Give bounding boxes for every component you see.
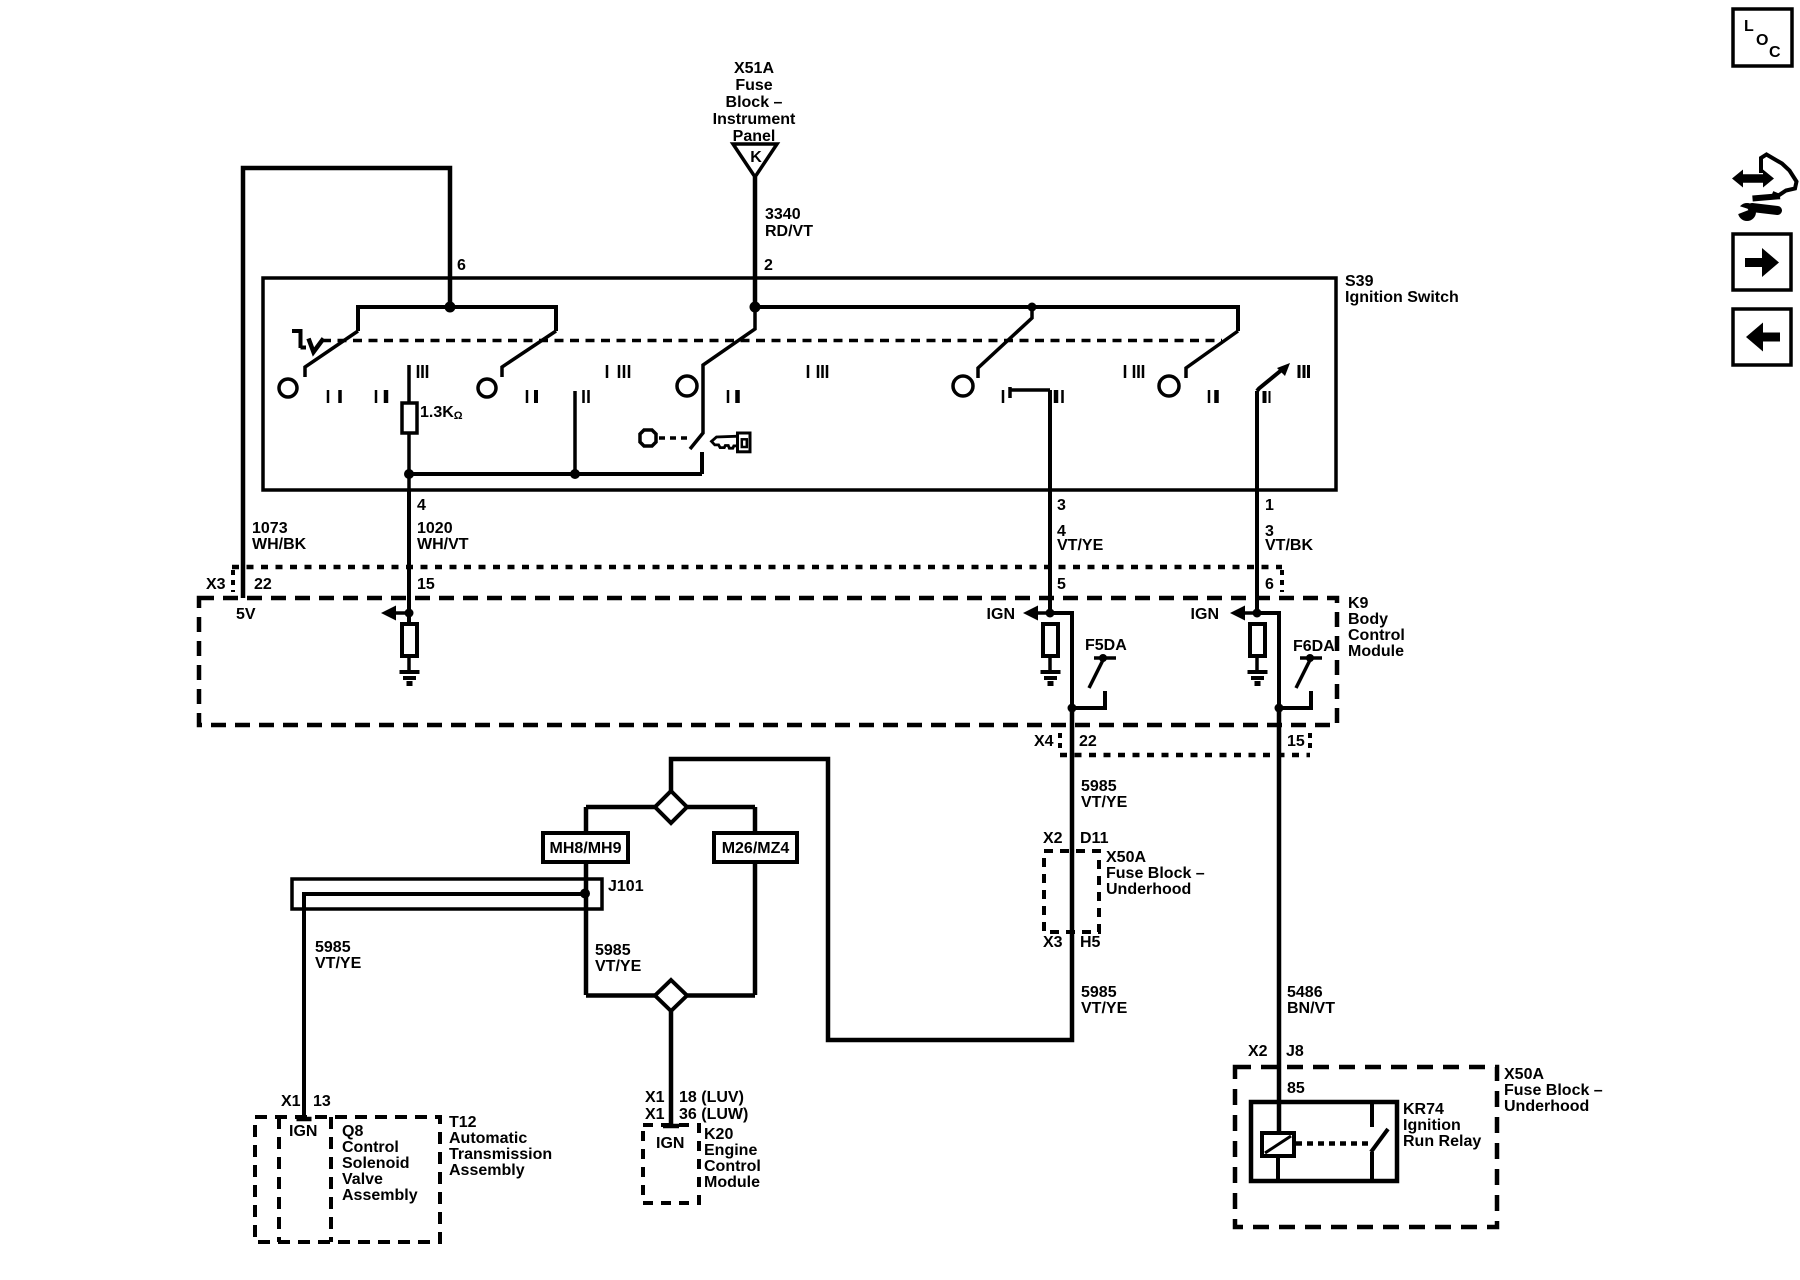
MH8 branch wire	[584, 807, 589, 995]
label K20 Engine Control Module	[704, 1126, 761, 1191]
fuse block pass-through D11 dashed box	[1044, 851, 1099, 932]
ticks group L7	[1265, 391, 1270, 403]
svg-text:IGN: IGN	[987, 606, 1015, 623]
svg-text:VT/YE: VT/YE	[315, 955, 362, 972]
label 4 VT/YE	[1057, 523, 1104, 554]
svg-text:1073: 1073	[252, 520, 288, 537]
svg-text:22: 22	[254, 576, 272, 593]
label X50A Fuse Block - Underhood (pass-through)	[1106, 849, 1205, 898]
wire 6 drop to bracket inside switch	[448, 278, 453, 307]
F6DA pivot bar	[1300, 656, 1322, 660]
svg-text:VT/YE: VT/YE	[1081, 1000, 1128, 1017]
svg-text:WH/BK: WH/BK	[252, 536, 307, 553]
svg-text:Fuse Block –: Fuse Block –	[1504, 1082, 1603, 1099]
splice bottom diamond	[655, 980, 687, 1011]
svg-text:IGN: IGN	[656, 1135, 684, 1152]
M26 branch wire	[753, 807, 758, 995]
label KR74 Ignition Run Relay	[1403, 1101, 1481, 1150]
svg-text:Block –: Block –	[726, 94, 783, 111]
junction dot resistor/bus	[404, 469, 414, 479]
engine control module K20 dashed box	[643, 1125, 699, 1203]
wire 5486 BN/VT from X4-15 to relay	[1277, 708, 1282, 1133]
underhood fuse block X50A dashed box	[1235, 1067, 1497, 1227]
splice top diamond	[655, 791, 687, 823]
svg-text:Module: Module	[704, 1174, 760, 1191]
svg-text:85: 85	[1287, 1080, 1305, 1097]
svg-text:1020: 1020	[417, 520, 453, 537]
svg-text:Q8: Q8	[342, 1123, 363, 1140]
position ticks group L1	[328, 390, 340, 403]
svg-text:KR74: KR74	[1403, 1101, 1444, 1118]
svg-text:IGN: IGN	[1191, 606, 1219, 623]
svg-text:18 (LUV): 18 (LUV)	[679, 1089, 744, 1106]
connector X3 line	[232, 565, 1282, 570]
ground lead	[1255, 656, 1259, 672]
svg-text:15: 15	[1287, 733, 1305, 750]
resistor bottom lead to internal bus	[407, 433, 411, 490]
T12 inner partition left	[277, 1117, 281, 1242]
switch blade 2	[502, 331, 556, 377]
IGN arrow on wire 5	[1023, 606, 1050, 621]
wire 1073 WH/BK pin 6 feed (top-left corner run)	[243, 168, 450, 598]
svg-text:L: L	[1744, 18, 1754, 35]
wire 5985 branch inside J101	[304, 894, 585, 1119]
switch blade 1	[305, 331, 358, 377]
connector X4 right bracket	[1308, 733, 1312, 753]
svg-text:5985: 5985	[595, 942, 631, 959]
connector X4 left bracket	[1058, 733, 1062, 753]
wire 2 junction dot on bracket 2	[750, 302, 761, 313]
svg-text:Run Relay: Run Relay	[1403, 1133, 1481, 1150]
svg-text:5985: 5985	[1081, 984, 1117, 1001]
svg-text:Underhood: Underhood	[1504, 1098, 1589, 1115]
branch to F5DA switch	[1050, 613, 1072, 708]
svg-text:Assembly: Assembly	[342, 1187, 418, 1204]
svg-text:Fuse: Fuse	[735, 77, 772, 94]
svg-text:5V: 5V	[236, 606, 256, 623]
switch common bracket 2	[755, 307, 1238, 331]
wire 5985 VT/YE from X4-22 to splice pack	[671, 708, 1072, 1040]
terminal bar at K20	[663, 1124, 679, 1129]
svg-text:Transmission: Transmission	[449, 1146, 552, 1163]
transmission code box MH8/MH9	[543, 833, 628, 862]
key switch contact circle 3	[677, 376, 697, 396]
wire 5985 to ECM	[669, 1011, 674, 1126]
splice bottom rail	[586, 993, 755, 998]
icon forward arrow box	[1733, 234, 1791, 290]
svg-text:BN/VT: BN/VT	[1287, 1000, 1335, 1017]
wire 3 VT/BK pin 1	[1255, 391, 1259, 613]
position ticks group L2	[376, 390, 386, 403]
pull resistor on 1020 input	[402, 624, 417, 656]
icon vehicle service (double arrow, car outline, wrench)	[1732, 155, 1797, 222]
F6DA fixed contact L	[1279, 691, 1311, 708]
relay switch lower contact	[1370, 1152, 1374, 1181]
ticks group L6	[1209, 390, 1217, 403]
junction dot J101	[580, 889, 590, 899]
splice J101 box	[292, 879, 602, 909]
accessory blade with arrowhead	[1257, 368, 1284, 391]
svg-text:J8: J8	[1286, 1043, 1304, 1060]
label X3 / H5	[1043, 934, 1101, 951]
ticks group L2b	[527, 390, 536, 403]
F6DA blade	[1296, 660, 1310, 688]
label X2 / J8	[1248, 1043, 1304, 1060]
ticks group U3	[808, 365, 827, 378]
contact circle 5	[1159, 376, 1179, 396]
label 5985 VT/YE (lower)	[1081, 984, 1128, 1017]
icon back arrow box	[1733, 309, 1791, 365]
relay KR74 box	[1251, 1102, 1397, 1181]
label T12 Automatic Transmission Assembly	[449, 1114, 552, 1179]
contact circle 1	[279, 379, 297, 397]
label Q8 Control Solenoid Valve Assembly	[342, 1123, 418, 1204]
relay actuation dashed link	[1296, 1141, 1368, 1146]
connector X3 right bracket	[1280, 570, 1284, 592]
F5DA pivot bar	[1094, 656, 1116, 660]
svg-text:X2: X2	[1248, 1043, 1268, 1060]
wire 1020 WH/VT pin 4	[407, 490, 411, 624]
label X1 / 13	[281, 1093, 331, 1110]
5V sense arrow	[381, 606, 409, 621]
F5DA blade	[1089, 660, 1103, 688]
svg-text:VT/BK: VT/BK	[1265, 537, 1313, 554]
wire 4 VT/YE pin 3	[1048, 390, 1052, 613]
svg-text:RD/VT: RD/VT	[765, 223, 813, 240]
svg-text:Underhood: Underhood	[1106, 881, 1191, 898]
internal bus wire	[409, 472, 702, 476]
label 3 VT/BK	[1265, 523, 1313, 554]
automatic transmission assembly T12 dashed box	[255, 1117, 440, 1242]
label 3340 RD/VT	[765, 206, 813, 240]
F6DA pivot dot	[1306, 654, 1314, 662]
F5DA fixed contact L	[1072, 691, 1105, 708]
contact stub mid bus	[573, 391, 577, 474]
junction node on bracket 1	[445, 302, 456, 313]
connector X3 left bracket	[231, 570, 235, 592]
svg-text:2: 2	[764, 257, 773, 274]
relay coil lower lead	[1276, 1156, 1280, 1181]
ticks group U5	[1299, 365, 1309, 378]
key icon	[712, 433, 751, 452]
relay switch upper contact	[1370, 1102, 1374, 1127]
label S39 Ignition Switch	[1345, 273, 1459, 306]
terminal bar at Q8	[297, 1117, 312, 1122]
relay switch blade	[1371, 1129, 1388, 1152]
svg-text:X3: X3	[206, 576, 226, 593]
label 5985 VT/YE (left branch)	[315, 939, 362, 972]
svg-text:Control: Control	[1348, 627, 1405, 644]
label 1073 WH/BK	[252, 520, 307, 553]
ground symbol	[1248, 672, 1268, 684]
svg-text:K9: K9	[1348, 595, 1369, 612]
ticks group U2	[607, 365, 629, 378]
branch to F6DA switch	[1257, 613, 1279, 708]
svg-text:F5DA: F5DA	[1085, 637, 1127, 654]
svg-text:X4: X4	[1034, 733, 1054, 750]
svg-text:O: O	[1756, 32, 1768, 49]
svg-text:VT/YE: VT/YE	[1081, 794, 1128, 811]
connector X51A Fuse Block - Instrument Panel label	[713, 60, 796, 145]
svg-text:Engine: Engine	[704, 1142, 757, 1159]
svg-text:15: 15	[417, 576, 435, 593]
svg-text:5486: 5486	[1287, 984, 1323, 1001]
ticks group L5 with contact bracket	[1003, 387, 1063, 403]
svg-text:X1: X1	[645, 1106, 665, 1123]
wiper arrow symbol (key turn)	[292, 329, 324, 352]
key actuator dashed link	[659, 436, 689, 440]
label X50A Fuse Block - Underhood	[1504, 1066, 1603, 1115]
svg-text:Ignition: Ignition	[1403, 1117, 1461, 1134]
switch blade 4	[978, 307, 1032, 378]
svg-text:F6DA: F6DA	[1293, 638, 1335, 655]
svg-text:Valve: Valve	[342, 1171, 383, 1188]
ticks group L3	[584, 390, 589, 403]
svg-text:Control: Control	[704, 1158, 761, 1175]
F5DA pivot dot	[1099, 654, 1107, 662]
svg-text:22: 22	[1079, 733, 1097, 750]
junction dot wire 5	[1046, 609, 1055, 618]
connector symbol K (triangle)	[733, 144, 777, 177]
IGN arrow on wire 6	[1230, 606, 1257, 621]
splice top rail	[586, 805, 755, 810]
wire 3340 RD/VT from fuse block to ignition switch pin 2	[753, 177, 758, 307]
svg-text:S39: S39	[1345, 273, 1374, 290]
svg-text:Ignition Switch: Ignition Switch	[1345, 289, 1459, 306]
svg-text:K20: K20	[704, 1126, 733, 1143]
svg-text:J101: J101	[608, 878, 644, 895]
label 5985 VT/YE (upper)	[1081, 778, 1128, 811]
label X1 18 (LUV) / X1 36 (LUW)	[645, 1089, 748, 1123]
svg-text:H5: H5	[1080, 934, 1101, 951]
svg-text:K: K	[750, 149, 762, 166]
ground lead	[1048, 656, 1052, 672]
svg-text:4: 4	[417, 497, 426, 514]
svg-text:X3: X3	[1043, 934, 1063, 951]
svg-text:C: C	[1769, 44, 1781, 61]
svg-text:M26/MZ4: M26/MZ4	[722, 840, 790, 857]
junction dot on 1020 wire	[405, 609, 414, 618]
contact circle 2	[478, 379, 496, 397]
ignition switch S39 box	[263, 278, 1336, 490]
svg-text:Module: Module	[1348, 643, 1404, 660]
svg-text:5985: 5985	[1081, 778, 1117, 795]
svg-text:D11: D11	[1080, 830, 1109, 847]
contact circle 4	[953, 376, 973, 396]
svg-text:Fuse Block –: Fuse Block –	[1106, 865, 1205, 882]
key actuator hex contact	[640, 430, 656, 446]
ticks group L4	[728, 390, 738, 403]
pull resistor input 5	[1043, 624, 1058, 656]
pull resistor input 6	[1250, 624, 1265, 656]
key switch blade 3 from pin 2 node	[690, 307, 755, 449]
ground lead	[407, 656, 411, 672]
label 5486 BN/VT	[1287, 984, 1335, 1017]
svg-text:Assembly: Assembly	[449, 1162, 525, 1179]
icon LOC box	[1733, 9, 1792, 66]
svg-text:T12: T12	[449, 1114, 477, 1131]
ticks group U4	[1125, 365, 1143, 378]
svg-text:13: 13	[313, 1093, 331, 1110]
svg-text:X2: X2	[1043, 830, 1063, 847]
dashed gang line of ignition switch	[322, 339, 1222, 343]
label 5985 VT/YE (middle branch)	[595, 942, 642, 975]
resistor R 1.3K ohm lead	[407, 365, 411, 403]
label 1020 WH/VT	[417, 520, 469, 553]
junction dot wire 6	[1253, 609, 1262, 618]
svg-text:X1: X1	[645, 1089, 665, 1106]
resistor feed stub and ticks U1	[418, 365, 427, 378]
relay coil	[1262, 1133, 1294, 1156]
svg-text:WH/VT: WH/VT	[417, 536, 469, 553]
svg-text:X50A: X50A	[1504, 1066, 1544, 1083]
svg-text:Instrument: Instrument	[713, 111, 796, 128]
svg-text:IGN: IGN	[289, 1123, 317, 1140]
switch blade 5	[1186, 331, 1238, 378]
ground symbol	[1041, 672, 1061, 684]
junction dot blade 4	[1028, 303, 1037, 312]
svg-text:5985: 5985	[315, 939, 351, 956]
ground symbol	[400, 672, 420, 684]
svg-text:Solenoid: Solenoid	[342, 1155, 410, 1172]
junction dot stub/bus	[570, 469, 580, 479]
svg-text:Automatic: Automatic	[449, 1130, 527, 1147]
svg-text:Control: Control	[342, 1139, 399, 1156]
label K9 Body Control Module	[1348, 595, 1405, 660]
contact bracket for pin 3 wire	[1010, 388, 1050, 392]
connector X4 line	[1060, 753, 1310, 758]
junction dot F5DA leg	[1068, 704, 1077, 713]
svg-text:X50A: X50A	[1106, 849, 1146, 866]
svg-text:VT/YE: VT/YE	[1057, 537, 1104, 554]
resistor R 1.3K ohm	[402, 403, 417, 433]
svg-text:VT/YE: VT/YE	[595, 958, 642, 975]
transmission code box M26/MZ4	[714, 833, 797, 862]
switch common bracket 1	[358, 307, 556, 331]
svg-text:6: 6	[457, 257, 466, 274]
body control module K9 dashed box	[199, 598, 1337, 725]
svg-text:X51A: X51A	[734, 60, 774, 77]
svg-text:Body: Body	[1348, 611, 1388, 628]
svg-text:3340: 3340	[765, 206, 801, 223]
svg-text:1: 1	[1265, 497, 1274, 514]
svg-text:5: 5	[1057, 576, 1066, 593]
svg-text:36 (LUW): 36 (LUW)	[679, 1106, 748, 1123]
svg-text:3: 3	[1057, 497, 1066, 514]
label X2 / D11	[1043, 830, 1109, 847]
svg-text:X1: X1	[281, 1093, 301, 1110]
junction dot F6DA leg	[1275, 704, 1284, 713]
svg-text:6: 6	[1265, 576, 1274, 593]
T12 inner partition right	[329, 1117, 333, 1242]
key switch lower contact	[700, 452, 704, 474]
svg-text:MH8/MH9: MH8/MH9	[549, 840, 621, 857]
